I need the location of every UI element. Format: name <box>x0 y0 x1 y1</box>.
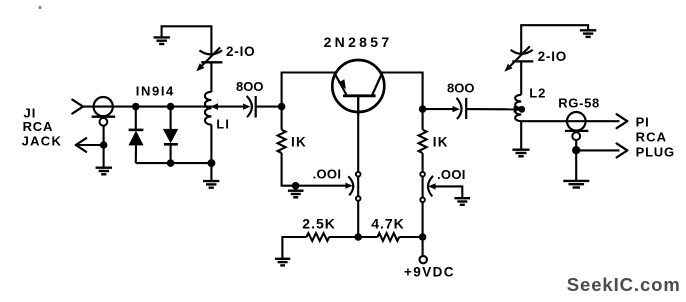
label 1K left <box>291 134 307 149</box>
label L2 <box>529 85 546 100</box>
wire input to L1 tap <box>83 106 211 108</box>
trimmer C2 adjust arrow <box>504 46 529 71</box>
label 1K right <box>433 135 449 150</box>
svg-text:8OO: 8OO <box>447 81 474 96</box>
wire plug shield to ground <box>575 150 577 181</box>
label +9VDC <box>404 264 455 279</box>
transistor Q1 2N2857 <box>332 60 384 116</box>
svg-text:RCA: RCA <box>23 119 54 134</box>
P1 shell terminal circle <box>572 132 580 140</box>
inductor L1 tapped coil <box>205 92 211 125</box>
svg-text:2-IO: 2-IO <box>226 44 255 59</box>
label L1 <box>216 118 230 132</box>
wire shield node to PLUG arrow <box>576 149 619 151</box>
trimmer C2 straight plate <box>512 60 533 62</box>
svg-text:4.7K: 4.7K <box>371 216 405 232</box>
wire 1K right down <box>422 153 424 237</box>
J1 shell terminal circle <box>100 118 108 126</box>
junction dot L1 bottom <box>207 159 215 167</box>
wire top-right <box>521 25 588 53</box>
wire top-left <box>162 26 212 53</box>
label RCA (jack) <box>23 119 54 134</box>
label 800 left <box>236 79 263 94</box>
wire supply node to terminal <box>422 237 424 256</box>
svg-text:RCA: RCA <box>636 130 667 145</box>
inductor L2 tapped coil <box>515 95 521 121</box>
output arrow PLUG <box>617 143 628 157</box>
trimmer capacitor C2 2-10 curved plate <box>511 50 533 54</box>
output arrow P1 <box>617 114 628 128</box>
J1 jack shell bar <box>92 116 116 118</box>
resistor 2.5K <box>307 233 330 241</box>
svg-text:RG-58: RG-58 <box>558 96 600 111</box>
label RG-58 <box>558 96 600 111</box>
capacitor .001 left (base bypass) <box>296 176 354 195</box>
wire node A to emitter <box>282 73 337 107</box>
scan speck <box>38 6 41 9</box>
label PLUG <box>636 145 675 160</box>
wire P1 shell down <box>575 140 577 150</box>
junction dot D2 bottom <box>167 159 175 167</box>
wire L2 out to P1 arrow <box>521 120 619 122</box>
svg-text:SeekIC.com: SeekIC.com <box>567 274 681 295</box>
wire bypass node ground stub <box>295 186 297 191</box>
resistor 4.7K <box>378 233 400 241</box>
svg-text:L2: L2 <box>529 85 546 100</box>
wire diode bottoms to L1 ground node <box>136 162 212 164</box>
junction dot plug shield node <box>572 146 580 154</box>
wire shield node to ground <box>103 145 105 168</box>
connector J1 RCA jack body <box>94 97 113 116</box>
junction dot collector node <box>419 105 427 113</box>
svg-text:2.5K: 2.5K <box>302 216 336 232</box>
svg-text:PI: PI <box>636 114 650 129</box>
+9VDC terminal circle <box>420 256 427 263</box>
label 2.5K <box>302 216 336 232</box>
wire node A down <box>281 107 283 130</box>
watermark SeekIC.com <box>567 274 681 295</box>
wire L2 bottom to ground <box>520 121 522 150</box>
svg-text:LI: LI <box>216 118 230 132</box>
base line terminal ring lower <box>356 196 361 201</box>
ground under L1 <box>203 181 219 188</box>
junction dot D2 top <box>167 103 175 111</box>
wire 4.7K to supply node <box>399 236 422 238</box>
label .001 left <box>313 167 342 182</box>
wire 1K left to bypass node <box>282 153 296 186</box>
junction dot supply node <box>419 233 427 241</box>
label P1 <box>636 114 650 129</box>
ground top-right <box>580 30 596 37</box>
svg-text:.OOI: .OOI <box>313 167 342 182</box>
label JACK <box>22 134 63 149</box>
right line terminal ring upper <box>420 172 425 177</box>
ground under left bypass <box>288 191 304 198</box>
ground under P1 <box>563 181 589 188</box>
wire C1 to L1 <box>210 62 212 92</box>
junction dot shield node <box>100 141 108 149</box>
svg-text:IN9I4: IN9I4 <box>136 84 175 99</box>
label RCA (plug) <box>636 130 667 145</box>
svg-text:8OO: 8OO <box>236 79 263 94</box>
label J1 <box>24 106 37 121</box>
svg-text:IK: IK <box>291 134 307 149</box>
right line terminal ring lower <box>420 198 425 203</box>
wire J1 shell down <box>103 126 105 145</box>
node A dot (emitter node) <box>278 103 286 111</box>
svg-text:IK: IK <box>433 135 449 150</box>
svg-text:2-IO: 2-IO <box>538 49 567 64</box>
junction dot bypass-ground node <box>292 182 300 190</box>
shield arrow <box>76 138 104 152</box>
capacitor 800pF right <box>423 98 516 119</box>
wire collector node down <box>422 109 424 130</box>
svg-text:JACK: JACK <box>22 134 63 149</box>
svg-text:PLUG: PLUG <box>636 145 675 160</box>
P1 plug shell bar <box>565 130 588 132</box>
resistor 1K right <box>419 130 427 153</box>
trimmer capacitor C1 2-10 curved plate <box>199 50 222 54</box>
label 800 right <box>447 81 474 96</box>
wire L1 to ground node <box>210 125 212 164</box>
junction dot base bias node <box>354 233 362 241</box>
input signal arrow into J1 <box>72 100 83 114</box>
svg-text:2N2857: 2N2857 <box>324 34 393 50</box>
L2 tap arrowhead and dot <box>514 106 526 113</box>
ground under right bypass <box>455 198 471 205</box>
wire bias rail left end <box>282 237 306 259</box>
label 2N2857 <box>324 34 393 50</box>
label 1N914 <box>136 84 175 99</box>
base line terminal ring upper <box>356 172 361 177</box>
wire C2 to L2 <box>520 61 522 94</box>
trimmer C1 straight plate <box>201 61 222 63</box>
resistor 1K left <box>278 130 286 153</box>
label 2-10 left <box>226 44 255 59</box>
junction dot D1 top <box>132 103 140 111</box>
diode D1 (1N914) cathode-up <box>128 107 143 164</box>
ground top-left <box>154 37 170 44</box>
label .001 right <box>437 167 466 182</box>
ground under J1 <box>96 168 112 175</box>
trimmer C1 adjust arrow <box>196 47 220 71</box>
wire collector to right node <box>380 73 423 110</box>
L1 tap arrowhead <box>211 103 218 110</box>
svg-text:+9VDC: +9VDC <box>404 264 455 279</box>
wire 2.5K to center <box>329 236 377 238</box>
ground bias rail left <box>275 259 290 266</box>
wire L1 ground stub <box>210 163 212 181</box>
diode D2 (1N914) cathode-down <box>163 107 178 164</box>
capacitor .001 right (collector bypass) <box>428 176 462 198</box>
label 2-10 right <box>538 49 567 64</box>
label 4.7K <box>371 216 405 232</box>
capacitor 800pF left <box>211 96 281 118</box>
ground under L2 <box>512 150 529 157</box>
svg-text:.OOI: .OOI <box>437 167 466 182</box>
connector P1 RCA plug body <box>567 112 586 131</box>
wire base line down <box>357 96 359 237</box>
